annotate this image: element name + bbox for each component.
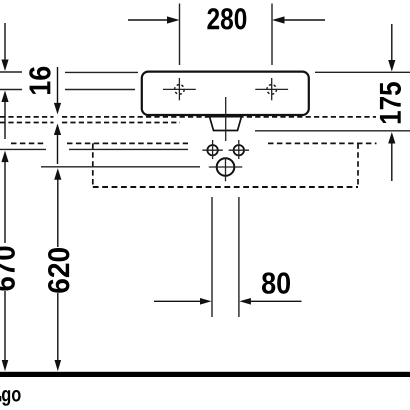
dimension 80: value label bbox=[262, 272, 290, 293]
tap-deck depth reference line (175 lower) bbox=[255, 130, 410, 132]
drain hole circle bbox=[209, 158, 243, 182]
dimension 620: line with arrows at x57.8 bbox=[54, 168, 61, 371]
dimension 80: left extension line bbox=[211, 197, 213, 317]
dashed siphon-space rectangle left edge bbox=[92, 143, 94, 187]
extension of basin top edge, left outer piece bbox=[0, 71, 22, 73]
floor line bbox=[0, 372, 410, 377]
dimension 670: line with arrows at x5 bbox=[1, 151, 8, 372]
dimension 80: left arrow bbox=[154, 298, 212, 305]
dimension 280: left extension line bbox=[179, 4, 181, 66]
dimension 175: lower arrow bbox=[388, 132, 395, 181]
extension of basin top edge, left inner piece bbox=[65, 71, 138, 73]
dimension 620: value label (rotated) bbox=[48, 248, 69, 293]
logo fragment: edge of previous letter bbox=[0, 396, 1, 401]
dimension 280: right extension line bbox=[271, 4, 273, 66]
drain height reference line (620) bbox=[41, 166, 200, 168]
dashed siphon-space rectangle top edge, left piece bbox=[11, 142, 45, 144]
washbasin body bbox=[142, 72, 309, 115]
lower left reference line, outer piece bbox=[0, 89, 22, 91]
fixing-hole height reference line (670), right piece bbox=[69, 148, 188, 150]
dashed console line B (16mm panel bottom), left piece bbox=[0, 122, 54, 124]
tap hole cross right bbox=[255, 78, 288, 100]
fixing hole right bbox=[229, 140, 249, 159]
dimension 280: right arrow bbox=[272, 16, 325, 23]
dashed siphon-space rectangle bottom edge bbox=[93, 186, 358, 188]
dimension 280: value label bbox=[207, 8, 246, 29]
tap hole cross left bbox=[163, 78, 196, 100]
dimension 80: right arrow bbox=[239, 298, 301, 305]
dashed siphon-space rectangle right edge bbox=[357, 143, 359, 187]
dashed siphon-space rectangle top edge, middle piece bbox=[67, 142, 188, 144]
fixing-hole height reference line (670), left piece bbox=[0, 148, 46, 150]
dashed siphon-space rectangle top edge, right piece bbox=[268, 142, 377, 144]
logo fragment "go" bbox=[2, 390, 21, 406]
dimension 16 (console gap): upper arrow at x57.5 bbox=[54, 67, 61, 114]
dimension 670: value label (rotated, clipped at left edge) bbox=[0, 246, 15, 290]
dashed console line A (16mm panel top), right piece bbox=[62, 116, 376, 118]
vertical centre line from basin to drain bbox=[225, 97, 227, 141]
dimension 16 (left pair): upper arrow bbox=[1, 23, 8, 71]
dimension 175: upper arrow bbox=[388, 24, 395, 72]
dimension 80: right extension line bbox=[238, 197, 240, 317]
dimension 175: value label (rotated) bbox=[380, 82, 401, 123]
drain trapezoid bbox=[210, 117, 242, 131]
dimension 16 (left pair): lower arrow bbox=[1, 91, 8, 140]
dashed console line A (16mm panel top), left piece bbox=[0, 116, 54, 118]
fixing hole left bbox=[202, 140, 222, 159]
lower left reference line, inner piece bbox=[65, 89, 135, 91]
dimension 280: left arrow bbox=[128, 16, 180, 23]
dashed console line B (16mm panel bottom), right piece bbox=[62, 122, 180, 124]
dimension 16 (console gap): lower arrow at x57.5 bbox=[54, 124, 61, 165]
extension of basin top edge, right piece bbox=[315, 71, 410, 73]
dimension 16: value label (rotated) bbox=[29, 67, 50, 94]
